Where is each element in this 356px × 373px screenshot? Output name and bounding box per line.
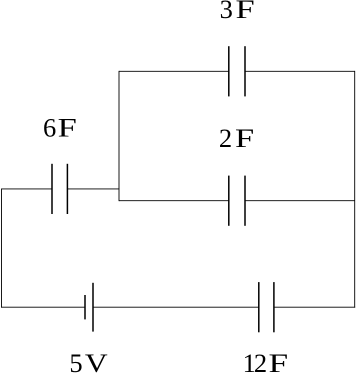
svg-text:V: V bbox=[85, 349, 108, 373]
wire right vertical bbox=[354, 71, 356, 308]
svg-text:6: 6 bbox=[43, 112, 56, 142]
svg-text:3: 3 bbox=[220, 0, 233, 24]
capacitor C2 2F plates bbox=[229, 176, 245, 226]
wire 6F branch right segment bbox=[67, 188, 119, 190]
svg-text:5: 5 bbox=[69, 348, 82, 373]
wire 2F branch right segment bbox=[245, 200, 355, 202]
svg-text:2: 2 bbox=[219, 123, 232, 153]
battery V1 long plate bbox=[92, 283, 94, 332]
wire bottom middle segment bbox=[93, 306, 259, 308]
svg-text:F: F bbox=[235, 124, 254, 153]
wire top branch left segment bbox=[119, 70, 229, 72]
svg-text:F: F bbox=[58, 113, 77, 142]
wire inner vertical bbox=[118, 71, 120, 201]
wire 6F branch left segment bbox=[2, 188, 53, 190]
wire top branch right segment bbox=[245, 70, 355, 72]
capacitor C1 3F plates bbox=[229, 46, 245, 96]
svg-text:12: 12 bbox=[243, 348, 266, 373]
wire bottom right segment bbox=[274, 306, 355, 308]
battery V1 short plate bbox=[84, 295, 86, 319]
svg-text:F: F bbox=[268, 348, 288, 373]
svg-text:F: F bbox=[236, 0, 255, 24]
capacitor C4 12F plates bbox=[259, 282, 274, 332]
wire 2F branch left segment bbox=[119, 200, 229, 202]
wire bottom left segment bbox=[1, 306, 85, 308]
wire left vertical bbox=[1, 188, 3, 307]
capacitor C3 6F plates bbox=[52, 164, 67, 214]
